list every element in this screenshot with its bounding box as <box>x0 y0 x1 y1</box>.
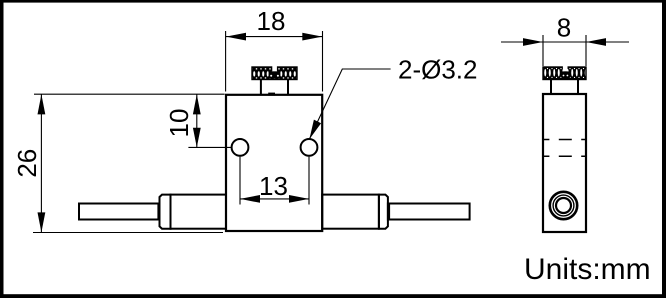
dim line 26 <box>40 94 42 232</box>
leader line <box>310 69 391 139</box>
screw tip mark on block top <box>268 93 275 96</box>
arrow 8 left <box>523 38 543 46</box>
border frame right <box>662 0 666 298</box>
right shaft end edge at collar <box>388 204 390 219</box>
port middle circle <box>553 195 574 216</box>
main block <box>226 95 322 231</box>
ext line 13 left <box>239 157 241 205</box>
side body <box>543 94 586 232</box>
knurled screw head (front) <box>252 67 297 80</box>
left collar <box>160 195 171 229</box>
arrow 8 right <box>586 38 606 46</box>
dim line 8 <box>501 41 629 43</box>
screw stem right (front) <box>287 79 289 95</box>
left shaft end edge at collar <box>157 204 159 219</box>
dim line 13 <box>240 198 309 200</box>
screw slot shadow (front) <box>269 71 281 78</box>
ext line 26 top <box>34 93 225 95</box>
arrow 26 bottom <box>38 212 46 232</box>
svg-text:2-Ø3.2: 2-Ø3.2 <box>398 54 478 84</box>
ext line 8 right <box>585 35 587 66</box>
hole right <box>301 139 318 156</box>
svg-text:8: 8 <box>557 12 571 42</box>
hole left <box>232 139 249 156</box>
right collar <box>379 195 388 229</box>
svg-text:Units:mm: Units:mm <box>524 253 651 286</box>
left big cylinder <box>171 195 227 229</box>
ext line 18 left <box>225 31 227 92</box>
svg-text:18: 18 <box>257 6 286 36</box>
side screw stem left <box>550 79 552 94</box>
ext line 8 left <box>542 35 544 66</box>
svg-text:10: 10 <box>164 109 194 138</box>
right thin shaft <box>388 204 470 220</box>
screw slot shadow (side) <box>561 71 570 78</box>
ext line 13 right <box>308 157 310 205</box>
hidden hole line lower <box>543 155 586 157</box>
dim line 10 <box>196 94 198 147</box>
arrow 18 left <box>226 33 246 41</box>
ext line 18 right <box>322 31 324 92</box>
ext line 10 bottom <box>188 146 231 148</box>
right big cylinder <box>322 195 379 229</box>
port inner circle <box>556 198 571 213</box>
border frame top <box>0 0 666 3</box>
border frame bottom <box>0 294 666 298</box>
side screw stem right <box>577 79 579 94</box>
svg-text:13: 13 <box>259 171 288 201</box>
hidden hole line upper <box>543 139 586 141</box>
screw head notch (side) <box>563 66 568 72</box>
leader arrowhead <box>309 120 321 140</box>
border frame left <box>0 0 4 298</box>
ext line 26 bottom <box>33 232 223 234</box>
arrow 13 right <box>289 195 309 203</box>
port outer circle <box>550 192 577 219</box>
screw stem left (front) <box>260 79 262 95</box>
arrow 18 right <box>302 33 322 41</box>
screw head notch (front) <box>272 66 277 72</box>
svg-text:26: 26 <box>12 149 42 178</box>
dim line 18 <box>226 36 323 38</box>
left thin shaft <box>79 204 160 220</box>
arrow 10 top <box>193 94 201 114</box>
knurled screw head (side) <box>543 67 586 80</box>
arrow 13 left <box>240 195 260 203</box>
arrow 26 top <box>38 94 46 114</box>
arrow 10 bottom <box>193 128 201 148</box>
